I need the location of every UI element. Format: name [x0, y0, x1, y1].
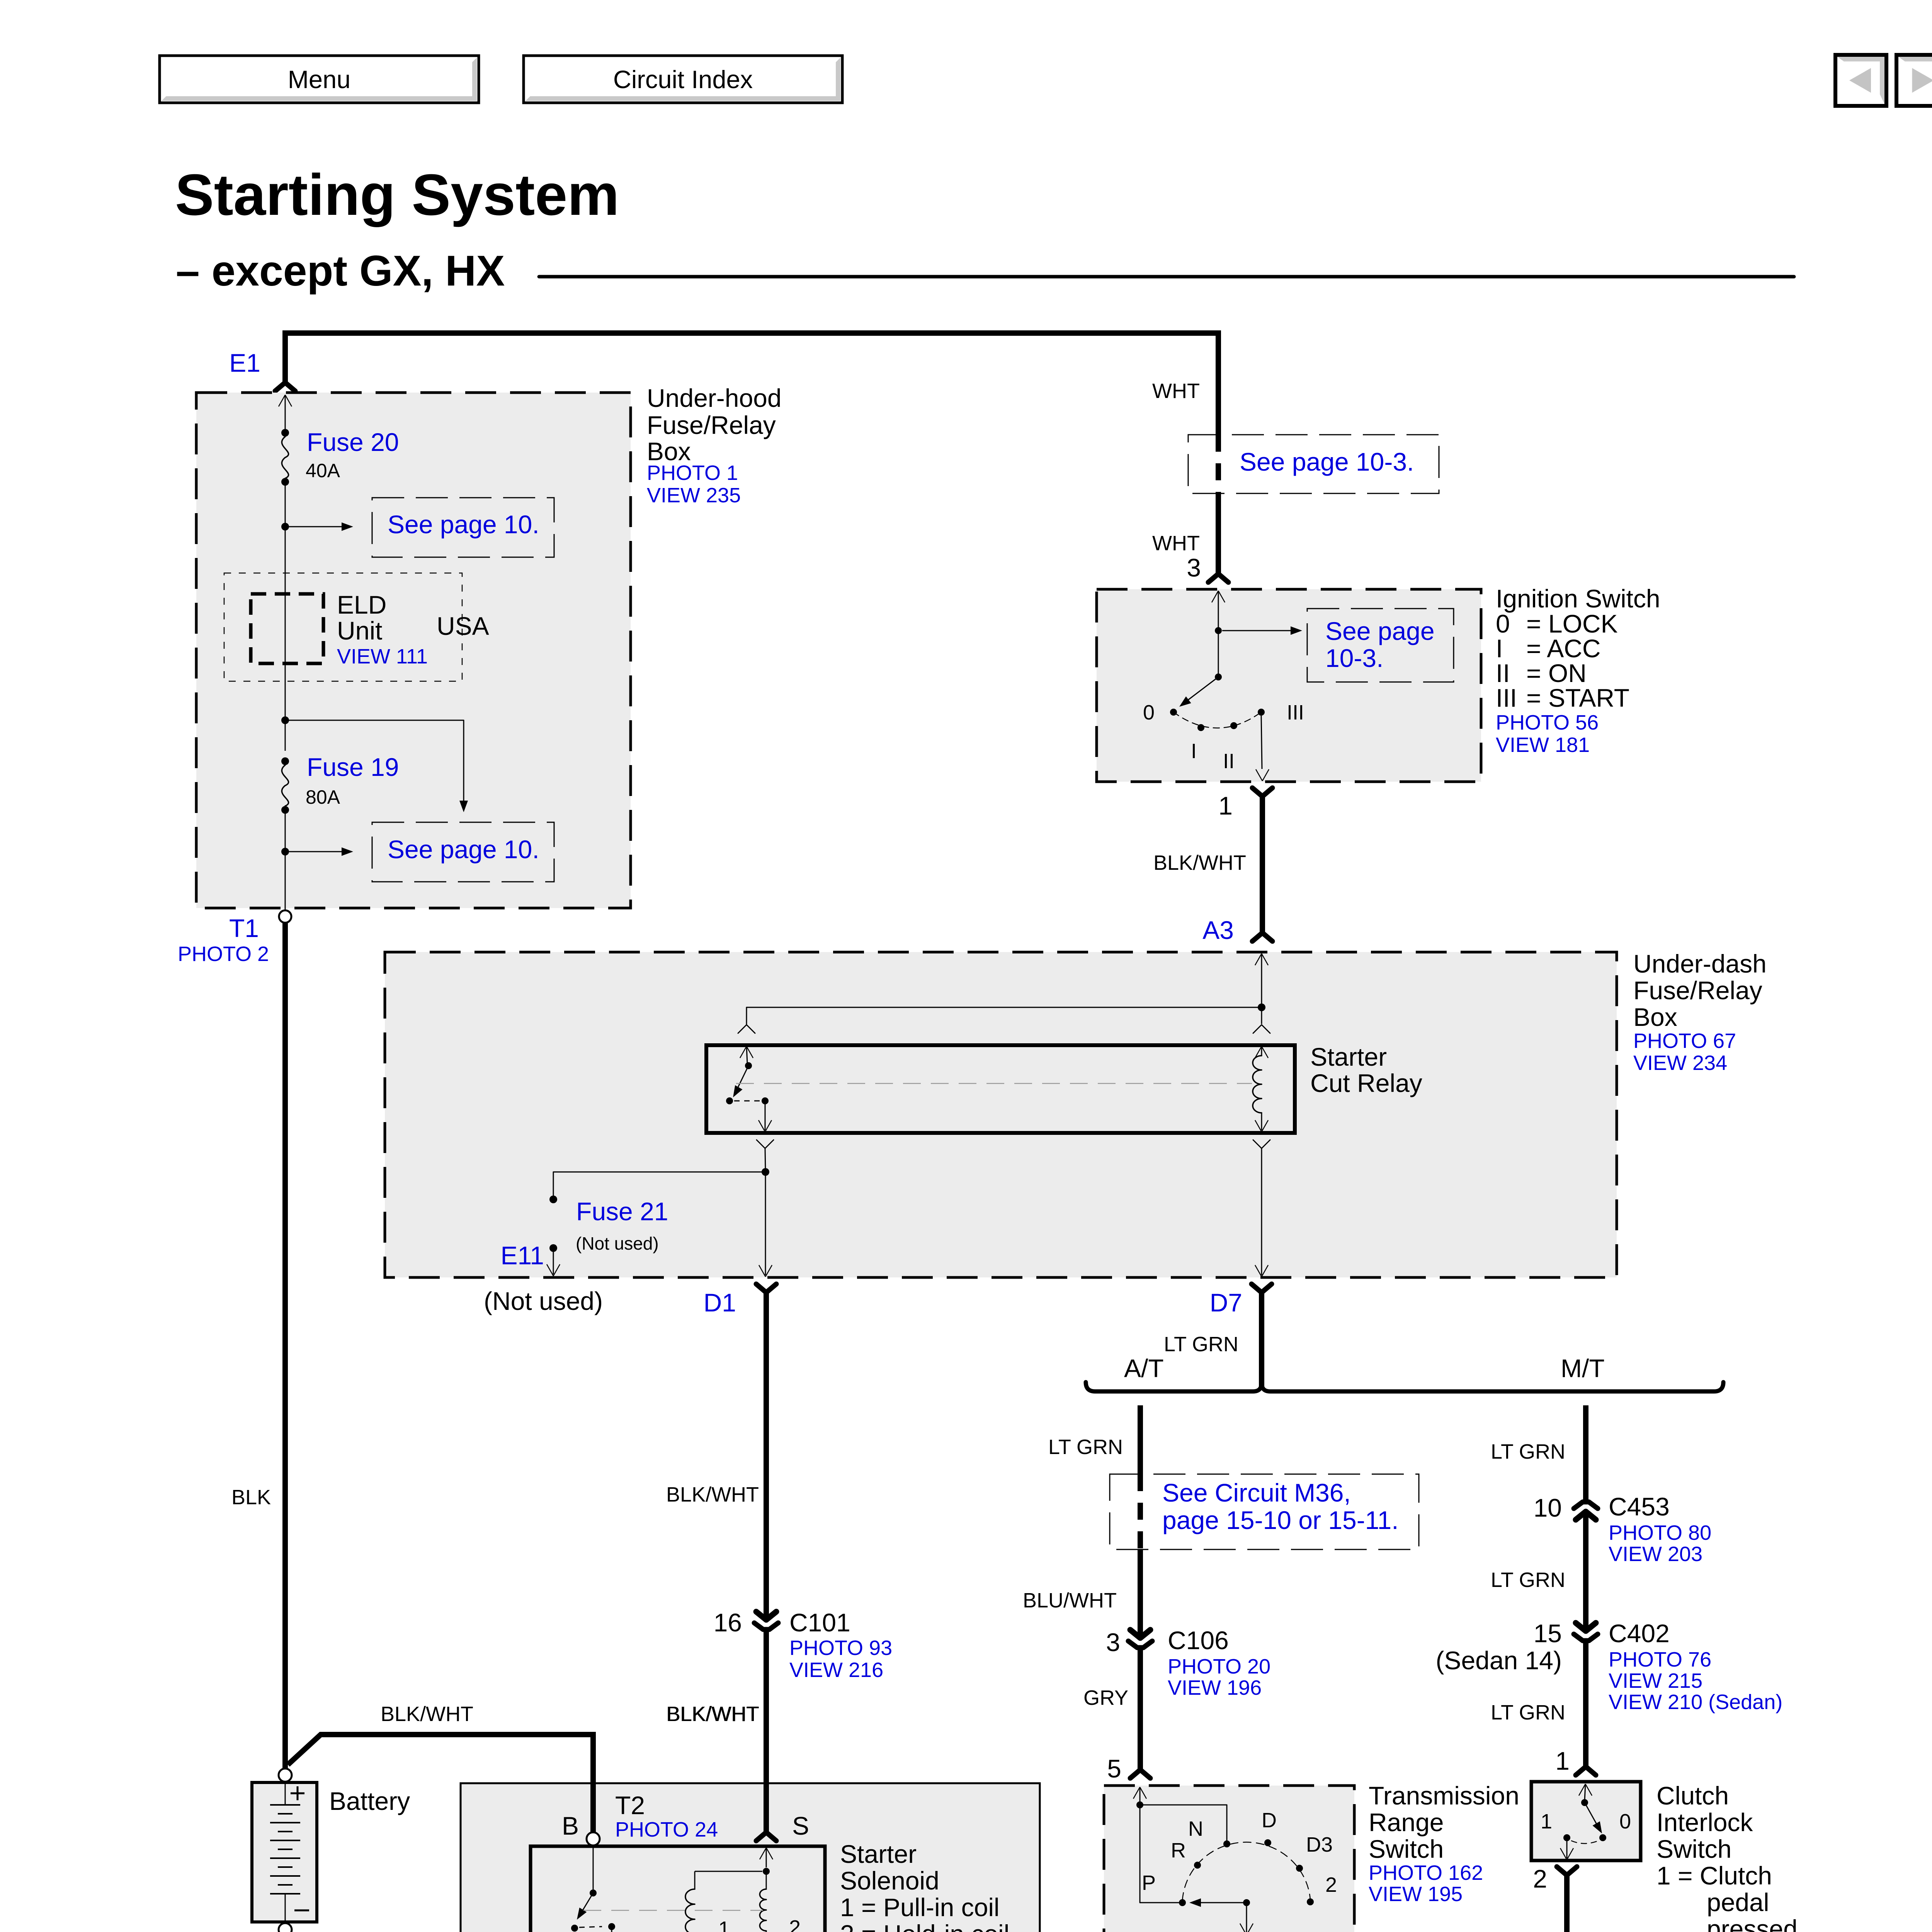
- connector C402 pin 15: [1576, 1623, 1596, 1631]
- clutch entry arrow: [1579, 1784, 1585, 1796]
- svg-text:PHOTO 2: PHOTO 2: [178, 942, 269, 966]
- svg-text:Fuse 21: Fuse 21: [576, 1197, 668, 1226]
- relay coil: [1261, 1046, 1262, 1056]
- solenoid switch top contact: [590, 1889, 597, 1896]
- svg-text:pressed: pressed: [1707, 1915, 1798, 1932]
- svg-text:T2: T2: [615, 1791, 645, 1820]
- wire to rotor pivot: [1218, 631, 1219, 677]
- node coil junction: [763, 1868, 770, 1875]
- svg-text:3: 3: [1106, 1628, 1120, 1656]
- contact D3: [1296, 1865, 1303, 1872]
- svg-text:Range: Range: [1369, 1808, 1444, 1837]
- contact 1 clutch: [1563, 1834, 1570, 1841]
- svg-text:PHOTO 76: PHOTO 76: [1609, 1648, 1711, 1671]
- wire junction to N contact: [1140, 1805, 1227, 1840]
- USA dashed region: [224, 573, 462, 681]
- wire BLK T1 to battery: [282, 923, 288, 1769]
- svg-text:See page 10.: See page 10.: [388, 835, 539, 864]
- svg-text:15: 15: [1534, 1619, 1562, 1648]
- svg-text:R: R: [1171, 1839, 1186, 1862]
- wire branch arrow right (upper): [289, 526, 342, 527]
- button page-forward (top): [1896, 55, 1932, 106]
- svg-text:C106: C106: [1168, 1626, 1229, 1655]
- svg-text:D3: D3: [1306, 1833, 1333, 1856]
- svg-text:0: 0: [1496, 609, 1510, 638]
- svg-text:VIEW 203: VIEW 203: [1609, 1543, 1702, 1566]
- svg-text:BLU/WHT: BLU/WHT: [1023, 1589, 1117, 1612]
- button Menu (top): [160, 56, 479, 103]
- svg-text:0: 0: [1143, 701, 1155, 724]
- svg-text:VIEW 195: VIEW 195: [1369, 1883, 1463, 1906]
- svg-text:PHOTO 1: PHOTO 1: [647, 461, 738, 485]
- wire A3 entry arrow: [1255, 954, 1262, 965]
- connector fork TRS pin 5: [1130, 1770, 1150, 1778]
- contact arc dashed: [1173, 712, 1261, 728]
- relay output to bottom pin: [765, 1101, 766, 1130]
- starter solenoid box: [531, 1846, 825, 1932]
- fuse F20 40A: [281, 429, 289, 437]
- wire D1 exit: [765, 1172, 766, 1275]
- svg-text:0: 0: [1619, 1810, 1631, 1833]
- svg-text:A3: A3: [1202, 916, 1234, 944]
- svg-text:Solenoid: Solenoid: [840, 1866, 939, 1895]
- contact P: [1179, 1899, 1186, 1906]
- wire LT GRN A/T upper: [1138, 1405, 1143, 1474]
- node ignition branch: [1215, 627, 1222, 634]
- svg-text:LT GRN: LT GRN: [1491, 1440, 1565, 1463]
- svg-text:= LOCK: = LOCK: [1526, 609, 1618, 638]
- svg-text:1: 1: [1541, 1810, 1552, 1833]
- svg-text:N: N: [1188, 1817, 1203, 1840]
- wire BLK/WHT ignition to A3: [1260, 796, 1265, 933]
- svg-text:Under-dash: Under-dash: [1633, 949, 1767, 978]
- svg-text:Fuse/Relay: Fuse/Relay: [647, 411, 776, 439]
- svg-text:Ignition Switch: Ignition Switch: [1496, 584, 1660, 613]
- svg-text:page 15-10 or 15-11.: page 15-10 or 15-11.: [1162, 1506, 1399, 1534]
- connector fork clutch pin 1: [1576, 1767, 1596, 1775]
- svg-text:Interlock: Interlock: [1656, 1808, 1753, 1837]
- svg-text:VIEW 111: VIEW 111: [337, 645, 428, 668]
- svg-text:VIEW 235: VIEW 235: [647, 484, 741, 507]
- relay switch arm open: [735, 1066, 748, 1093]
- svg-text:III: III: [1496, 684, 1517, 712]
- svg-text:See page 10-3.: See page 10-3.: [1240, 447, 1414, 476]
- svg-text:GRY: GRY: [1083, 1686, 1128, 1709]
- svg-text:E11: E11: [500, 1241, 544, 1270]
- svg-text:Cut Relay: Cut Relay: [1310, 1069, 1422, 1097]
- svg-text:VIEW 210 (Sedan): VIEW 210 (Sedan): [1609, 1690, 1782, 1714]
- svg-text:Switch: Switch: [1656, 1835, 1731, 1863]
- svg-text:BLK/WHT: BLK/WHT: [667, 1702, 759, 1726]
- svg-text:P: P: [1142, 1871, 1156, 1895]
- svg-text:D: D: [1262, 1809, 1277, 1832]
- svg-text:T1: T1: [229, 914, 259, 942]
- connector C453 pin 10: [1576, 1512, 1596, 1520]
- node rotor pivot: [1215, 673, 1222, 680]
- node TRS junction: [1136, 1801, 1143, 1808]
- svg-text:VIEW 234: VIEW 234: [1633, 1051, 1727, 1075]
- svg-text:1: 1: [718, 1917, 730, 1932]
- node relay feed junction: [1258, 1003, 1265, 1011]
- svg-text:pedal: pedal: [1707, 1888, 1769, 1917]
- rotor arm to 0 contact: [1186, 677, 1218, 701]
- contact 2: [1307, 1898, 1314, 1905]
- wire fuse20 to fuse19: [285, 482, 286, 751]
- wire coil1 top to junction: [695, 1871, 762, 1872]
- svg-text:2 = Hold-in coil: 2 = Hold-in coil: [840, 1920, 1009, 1932]
- svg-text:PHOTO 80: PHOTO 80: [1609, 1521, 1711, 1544]
- node branch to see page 10 (lower): [281, 716, 289, 724]
- svg-text:2: 2: [1533, 1864, 1547, 1893]
- relay bottom socket right: [1253, 1140, 1270, 1148]
- svg-text:PHOTO 162: PHOTO 162: [1369, 1861, 1483, 1884]
- starter assembly box: [461, 1783, 1040, 1932]
- svg-text:LT GRN: LT GRN: [1491, 1701, 1565, 1724]
- svg-text:USA: USA: [437, 612, 489, 640]
- svg-text:BLK/WHT: BLK/WHT: [1153, 851, 1246, 874]
- svg-text:C101: C101: [789, 1608, 850, 1637]
- hold-in coil 2: [766, 1871, 767, 1889]
- svg-text:(Not used): (Not used): [484, 1287, 603, 1315]
- svg-text:D1: D1: [704, 1288, 736, 1317]
- svg-text:PHOTO 20: PHOTO 20: [1168, 1655, 1270, 1678]
- svg-text:C402: C402: [1609, 1619, 1670, 1648]
- wire BLK clutch to box 14-3: [1564, 1875, 1570, 1932]
- arrow into box top: [279, 395, 285, 406]
- svg-text:(Sedan 14): (Sedan 14): [1435, 1646, 1562, 1675]
- transmission range switch box: [1104, 1786, 1354, 1932]
- solenoid switch wire from B: [593, 1845, 594, 1889]
- wire BLU/WHT to C106: [1138, 1549, 1143, 1637]
- wire WHT dashed through see-page box: [1216, 435, 1221, 493]
- button page-back (top): [1835, 55, 1886, 106]
- svg-text:1 = Pull-in coil: 1 = Pull-in coil: [840, 1893, 1000, 1922]
- svg-text:ELD: ELD: [337, 590, 386, 619]
- svg-text:Fuse/Relay: Fuse/Relay: [1633, 976, 1762, 1005]
- node fuse21 junction: [762, 1168, 769, 1176]
- battery B1: [252, 1782, 317, 1922]
- wire E11 stub: [553, 1252, 554, 1274]
- contact D: [1264, 1839, 1271, 1846]
- battery positive terminal: [279, 1769, 292, 1782]
- wire under-hood vertical: [285, 395, 286, 433]
- svg-text:Fuse 20: Fuse 20: [307, 428, 399, 456]
- svg-text:= ACC: = ACC: [1526, 634, 1601, 663]
- solenoid M-node: [608, 1923, 615, 1930]
- svg-text:See page 10.: See page 10.: [388, 510, 539, 539]
- clutch pivot contact: [1581, 1799, 1588, 1806]
- svg-text:= START: = START: [1526, 684, 1629, 712]
- wire GRY to TRS: [1138, 1648, 1143, 1770]
- relay bottom socket left: [757, 1140, 774, 1148]
- svg-text:LT GRN: LT GRN: [1164, 1333, 1238, 1356]
- node E1 connector: [275, 383, 295, 391]
- wire relay to D1: [765, 1148, 765, 1172]
- ref box See Circuit M36: [1110, 1474, 1419, 1549]
- svg-text:WHT: WHT: [1152, 379, 1200, 403]
- clutch interlock switch box: [1531, 1782, 1641, 1861]
- svg-text:VIEW 216: VIEW 216: [789, 1658, 883, 1682]
- pull-in coil 1: [694, 1871, 696, 1889]
- contact 0 clutch: [1599, 1834, 1606, 1841]
- clutch switch arm open to 0: [1585, 1803, 1600, 1830]
- solenoid switch arm open: [580, 1893, 593, 1915]
- wire rotor to pin 4: [1246, 1903, 1247, 1932]
- relay switch dashed link: [734, 1100, 760, 1102]
- clutch dashed link: [1571, 1841, 1598, 1844]
- svg-text:Switch: Switch: [1369, 1835, 1444, 1863]
- wire fuse19 to T1: [285, 810, 286, 911]
- contact R: [1194, 1862, 1201, 1869]
- wire WHT lower segment: [1216, 493, 1221, 574]
- solenoid switch fixed contact: [571, 1925, 578, 1932]
- svg-text:PHOTO 93: PHOTO 93: [789, 1636, 892, 1660]
- solenoid S entry arrow: [760, 1848, 766, 1859]
- TRS contact arc dashed: [1182, 1842, 1310, 1900]
- ref box See page 10-3.: [1188, 435, 1439, 493]
- svg-text:Starter: Starter: [840, 1840, 917, 1868]
- wire BLK/WHT B segment inside starter box: [590, 1783, 596, 1832]
- svg-text:16: 16: [714, 1608, 742, 1637]
- svg-text:Circuit Index: Circuit Index: [613, 65, 753, 94]
- svg-text:See page: See page: [1325, 617, 1435, 645]
- contact 0: [1170, 709, 1177, 716]
- wire junction down to relay right pin: [1261, 1007, 1262, 1024]
- svg-text:1: 1: [1218, 791, 1233, 820]
- svg-text:See Circuit M36,: See Circuit M36,: [1162, 1478, 1351, 1507]
- svg-text:II: II: [1223, 750, 1235, 773]
- svg-text:= ON: = ON: [1526, 659, 1587, 687]
- wire dashed through M36 box: [1138, 1474, 1143, 1549]
- ref box See page 10. (upper): [372, 498, 554, 557]
- svg-text:II: II: [1496, 659, 1510, 687]
- svg-text:3: 3: [1187, 553, 1201, 582]
- relay switch top contact: [745, 1062, 752, 1069]
- svg-text:BLK/WHT: BLK/WHT: [381, 1702, 473, 1726]
- wire junction to P contact: [1140, 1805, 1179, 1903]
- contact N: [1223, 1840, 1230, 1847]
- svg-text:III: III: [1287, 701, 1304, 724]
- svg-text:Transmission: Transmission: [1369, 1781, 1519, 1810]
- svg-text:BLK: BLK: [231, 1486, 271, 1509]
- svg-text:– except GX, HX: – except GX, HX: [176, 247, 505, 295]
- wire III to pin 1: [1261, 716, 1262, 769]
- wire branch right-down to lower box: [285, 720, 464, 801]
- svg-text:WHT: WHT: [1152, 532, 1200, 555]
- svg-text:C453: C453: [1609, 1492, 1670, 1521]
- svg-text:I: I: [1496, 634, 1503, 663]
- svg-text:Starter: Starter: [1310, 1043, 1387, 1071]
- svg-text:LT GRN: LT GRN: [1048, 1435, 1123, 1459]
- connector C106 pin 3: [1130, 1630, 1150, 1638]
- A/T M/T brace: [1086, 1382, 1723, 1391]
- svg-text:PHOTO 67: PHOTO 67: [1633, 1029, 1736, 1053]
- wire ignition entry: [1212, 591, 1218, 602]
- terminal B circle: [587, 1832, 600, 1845]
- title rule: [539, 275, 1794, 279]
- svg-text:D7: D7: [1210, 1288, 1242, 1317]
- battery negative terminal: [279, 1923, 292, 1932]
- ref box See page 10. (lower): [372, 822, 554, 882]
- fuse F21 not used: [549, 1196, 557, 1203]
- wire BLK/WHT D1 to C101: [764, 1293, 769, 1619]
- svg-text:Under-hood: Under-hood: [647, 384, 782, 412]
- relay switch fixed contact: [726, 1097, 733, 1104]
- node branch arrow (lower): [281, 848, 289, 855]
- svg-text:(Not used): (Not used): [576, 1233, 659, 1253]
- wire LT GRN C402 to clutch switch: [1583, 1641, 1588, 1767]
- relay socket chevron right: [1253, 1025, 1270, 1033]
- svg-text:A/T: A/T: [1124, 1354, 1164, 1383]
- relay socket chevron left: [738, 1025, 755, 1033]
- under-hood fuse/relay box: [196, 393, 631, 908]
- svg-text:1: 1: [1555, 1747, 1570, 1775]
- wire across to relay coil-side pin: [747, 1007, 1262, 1024]
- svg-text:VIEW 181: VIEW 181: [1496, 733, 1590, 757]
- svg-text:40A: 40A: [306, 460, 340, 481]
- svg-text:PHOTO 56: PHOTO 56: [1496, 711, 1599, 734]
- wire LT GRN M/T upper: [1583, 1405, 1588, 1502]
- wire contact 1 to pin 2: [1566, 1841, 1568, 1858]
- svg-text:80A: 80A: [306, 786, 340, 808]
- relay switch arrow up: [740, 1046, 747, 1058]
- svg-text:VIEW 215: VIEW 215: [1609, 1669, 1702, 1692]
- contact I: [1197, 724, 1204, 731]
- svg-text:BLK/WHT: BLK/WHT: [666, 1483, 759, 1506]
- svg-text:E1: E1: [229, 349, 260, 377]
- ELD unit box: [251, 594, 323, 663]
- solenoid dashed link: [579, 1927, 602, 1927]
- terminal T1: [279, 910, 291, 923]
- wire BLK/WHT battery to B terminal: [288, 1735, 593, 1832]
- wire LT GRN C453 to C402: [1583, 1512, 1588, 1630]
- connector fork pin 3: [1208, 574, 1228, 582]
- ref box See page 10-3. inner: [1307, 609, 1454, 682]
- svg-text:1 = Clutch: 1 = Clutch: [1656, 1861, 1772, 1890]
- node TRS rotor pivot: [1243, 1899, 1250, 1906]
- svg-text:Fuse 19: Fuse 19: [307, 753, 399, 781]
- svg-text:2: 2: [1325, 1873, 1337, 1896]
- wire arrow to inner see page box: [1222, 630, 1291, 631]
- svg-text:Unit: Unit: [337, 616, 382, 645]
- wire LT GRN D7 to brace: [1259, 1293, 1264, 1388]
- fuse F19 80A: [281, 757, 289, 765]
- terminal S fork: [756, 1832, 776, 1841]
- wire fuse21 branch: [553, 1172, 762, 1196]
- contact III: [1258, 709, 1265, 716]
- node branch to see page 10 (upper): [281, 523, 289, 531]
- svg-text:5: 5: [1107, 1754, 1121, 1783]
- contact II: [1230, 722, 1237, 729]
- connector C101 pin 16: [756, 1612, 776, 1620]
- svg-text:I: I: [1191, 740, 1197, 763]
- wire BLK/WHT S segment inside starter box: [764, 1783, 769, 1832]
- svg-text:Menu: Menu: [288, 65, 351, 94]
- svg-text:10: 10: [1534, 1493, 1562, 1522]
- svg-text:Starting System: Starting System: [175, 162, 619, 227]
- svg-text:PHOTO 24: PHOTO 24: [615, 1818, 718, 1841]
- svg-text:B: B: [562, 1811, 579, 1840]
- svg-text:Battery: Battery: [329, 1787, 410, 1815]
- gray dashed relay link: [736, 1083, 1252, 1084]
- svg-text:M/T: M/T: [1561, 1354, 1605, 1383]
- wire D7 exit: [1261, 1148, 1262, 1275]
- svg-text:VIEW 196: VIEW 196: [1168, 1676, 1262, 1699]
- ignition switch box: [1097, 589, 1481, 782]
- wire BLK/WHT C101 to S: [764, 1630, 769, 1832]
- connector fork pin 1: [1252, 788, 1272, 796]
- svg-text:Clutch: Clutch: [1656, 1781, 1729, 1810]
- svg-text:Box: Box: [1633, 1003, 1677, 1031]
- svg-text:S: S: [792, 1811, 809, 1840]
- svg-text:2: 2: [789, 1916, 801, 1932]
- gray dashed solenoid link: [583, 1910, 763, 1911]
- svg-text:LT GRN: LT GRN: [1491, 1568, 1565, 1592]
- starter cut relay box: [706, 1045, 1295, 1133]
- button Circuit Index (top): [524, 56, 842, 103]
- TRS entry arrow: [1133, 1787, 1140, 1799]
- TRS rotor arm: [1198, 1902, 1247, 1903]
- svg-text:10-3.: 10-3.: [1325, 644, 1383, 672]
- under-dash fuse/relay box: [385, 952, 1617, 1277]
- wire battery bus E1 to ignition WHT: [285, 333, 1218, 435]
